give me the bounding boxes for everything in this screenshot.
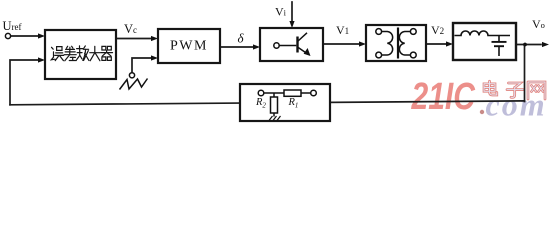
svg-text:PWM: PWM (170, 39, 208, 54)
Uref terminal (5, 33, 10, 38)
transistor Q inside switch box (274, 33, 307, 53)
wire Uref input (11, 35, 39, 37)
resistor R2 body (271, 97, 278, 113)
char 子 (507, 83, 523, 97)
wire delta PWM to switch (220, 46, 254, 48)
svg-text:Vo: Vo (532, 17, 545, 31)
arrow Vi down (289, 21, 294, 28)
arrow into PWM bottom (151, 55, 158, 60)
error amplifier box (45, 30, 116, 79)
text 误差放大器 (drawn strokes) (51, 46, 112, 61)
watermark 电子网 (drawn strokes) (484, 81, 545, 99)
LC filter box (453, 23, 516, 60)
core (397, 28, 399, 59)
svg-text:Vc: Vc (124, 22, 137, 36)
ramp generator terminal (129, 73, 134, 78)
sampling network internals (258, 90, 316, 121)
sawtooth symbol (120, 79, 148, 90)
primary winding (382, 32, 393, 56)
arrow into switch box (253, 44, 260, 49)
char 电 light core (484, 81, 497, 95)
arrow into error amp top (38, 33, 45, 38)
wire (264, 92, 284, 94)
arrow Vo out (542, 42, 549, 47)
transformer terminals (376, 29, 382, 35)
transformer box (366, 25, 426, 61)
char 差 (64, 46, 76, 61)
ground hatching (269, 116, 281, 121)
wire V1 (323, 43, 360, 45)
wire Vi vertical (291, 2, 293, 21)
char 网 light core (528, 82, 545, 99)
arrow into LC filter (446, 41, 453, 46)
arrow into PWM top (151, 36, 158, 41)
char 放 (77, 46, 89, 61)
arrow into transformer (359, 41, 366, 46)
char 大 (90, 46, 100, 60)
R2 ground stem (273, 113, 275, 117)
transistor emitter arrowhead (304, 48, 311, 56)
arrow into error amp bottom (38, 57, 45, 62)
right terminal (311, 90, 317, 96)
watermark dot (480, 110, 484, 114)
switch box (260, 28, 323, 61)
secondary winding (399, 32, 410, 56)
wire ramp input (132, 58, 152, 72)
wire Vc (116, 38, 152, 40)
wire feedback left vertical (10, 60, 39, 105)
transformer symbol (376, 28, 416, 59)
wire Vo output (516, 44, 541, 46)
char 电 (484, 81, 497, 95)
char 子 light core (507, 83, 523, 97)
capacitor C in LC box (498, 36, 500, 42)
wire output junction vertical (524, 45, 526, 102)
wire V2 (426, 43, 447, 45)
svg-text:Uref: Uref (3, 19, 22, 33)
left terminal (258, 90, 264, 96)
svg-text:21IC: 21IC (411, 76, 476, 118)
svg-text:Vi: Vi (275, 5, 287, 19)
char 误 (51, 47, 63, 61)
watermark 21IC (411, 76, 476, 118)
sampling network box (240, 84, 330, 121)
char 器 (101, 46, 113, 60)
wire bottom feedback (10, 101, 525, 105)
svg-text:V2: V2 (431, 23, 444, 37)
PWM box (158, 29, 220, 63)
resistor R1 body (284, 90, 301, 96)
svg-text:V1: V1 (336, 23, 349, 37)
char 网 (528, 82, 545, 99)
svg-text:δ: δ (238, 31, 245, 46)
junction dot output (523, 43, 527, 47)
wire (301, 92, 311, 94)
inductor L in LC box (455, 31, 511, 56)
R2 tap wire (273, 93, 275, 97)
